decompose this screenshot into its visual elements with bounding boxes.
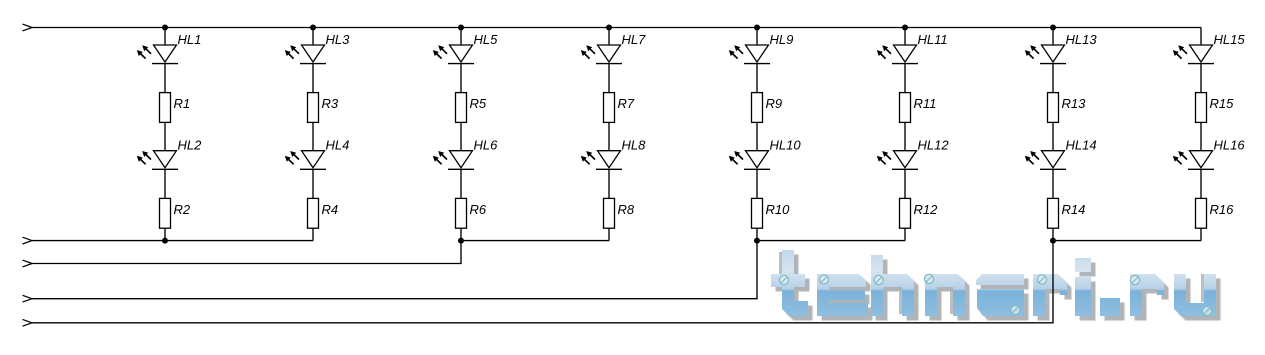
wire (904, 64, 906, 93)
wire (1052, 28, 1054, 46)
resistor R2 (160, 198, 191, 228)
wire (460, 28, 462, 46)
wire (460, 64, 462, 93)
svg-text:R3: R3 (322, 96, 339, 111)
svg-text:R8: R8 (618, 202, 635, 217)
terminal X4 (23, 295, 33, 302)
svg-text:HL4: HL4 (326, 138, 350, 153)
wire (164, 28, 166, 46)
svg-text:HL3: HL3 (326, 32, 351, 47)
resistor R6 (456, 198, 487, 228)
wire (904, 122, 906, 150)
LED HL7 (581, 32, 646, 64)
svg-text:R7: R7 (618, 96, 635, 111)
svg-text:HL11: HL11 (918, 32, 948, 47)
watermark tehnari.ru logo (771, 250, 1221, 321)
resistor R3 (308, 93, 339, 123)
wire (312, 169, 314, 198)
wire (608, 228, 610, 240)
wire (1200, 228, 1202, 240)
wire (608, 169, 610, 198)
svg-text:HL1: HL1 (178, 32, 202, 47)
resistor R10 (752, 198, 791, 228)
wire (312, 228, 314, 240)
resistor R16 (1196, 198, 1235, 228)
resistor R15 (1196, 93, 1235, 123)
wire (460, 228, 462, 240)
junction (754, 25, 760, 31)
LED HL3 (285, 32, 350, 64)
wire bus 4 (32, 241, 1201, 323)
terminal X1 (23, 24, 33, 31)
wire (904, 228, 906, 240)
svg-text:HL6: HL6 (474, 138, 499, 153)
resistor R14 (1048, 198, 1086, 228)
LED HL9 (729, 32, 794, 64)
svg-text:HL15: HL15 (1214, 32, 1246, 47)
LED HL2 (137, 138, 202, 170)
wire (608, 64, 610, 93)
wire (756, 228, 758, 240)
svg-text:R10: R10 (766, 202, 791, 217)
svg-text:HL9: HL9 (770, 32, 794, 47)
wire (756, 122, 758, 150)
LED HL15 (1173, 32, 1246, 64)
LED HL16 (1173, 138, 1246, 170)
wire bus 3 (32, 241, 905, 299)
junction (1050, 238, 1056, 244)
wire (1200, 122, 1202, 150)
LED HL5 (433, 32, 498, 64)
terminal X5 (23, 319, 33, 326)
wire bus 1 (32, 240, 313, 242)
svg-text:R11: R11 (914, 96, 937, 111)
resistor R11 (900, 93, 937, 123)
wire (756, 64, 758, 93)
svg-text:HL7: HL7 (622, 32, 647, 47)
svg-text:HL13: HL13 (1066, 32, 1098, 47)
wire (312, 122, 314, 150)
junction (606, 25, 612, 31)
LED HL4 (285, 138, 350, 170)
LED HL10 (729, 138, 802, 170)
wire (164, 228, 166, 240)
wire (904, 28, 906, 46)
resistor R7 (604, 93, 635, 123)
wire (164, 169, 166, 198)
svg-text:HL14: HL14 (1066, 138, 1097, 153)
wire (164, 64, 166, 93)
resistor R9 (752, 93, 783, 123)
wire (1052, 64, 1054, 93)
junction (458, 25, 464, 31)
wire (1200, 169, 1202, 198)
wire (312, 64, 314, 93)
resistor R12 (900, 198, 939, 228)
terminal X2 (23, 237, 33, 244)
wire (904, 169, 906, 198)
wire (1200, 28, 1202, 46)
junction (310, 25, 316, 31)
wire (756, 169, 758, 198)
LED HL11 (877, 32, 948, 64)
wire (312, 28, 314, 46)
resistor R13 (1048, 93, 1087, 123)
wire (1200, 64, 1202, 93)
svg-text:R13: R13 (1062, 96, 1087, 111)
junction (162, 238, 168, 244)
resistor R8 (604, 198, 635, 228)
svg-text:R9: R9 (766, 96, 783, 111)
svg-text:R2: R2 (174, 202, 191, 217)
LED HL6 (433, 138, 498, 170)
LED HL12 (877, 138, 950, 170)
wire (1052, 122, 1054, 150)
resistor R5 (456, 93, 487, 123)
wire (608, 28, 610, 46)
wire bus 2 (32, 241, 609, 264)
LED HL8 (581, 138, 646, 170)
wire (460, 169, 462, 198)
LED HL13 (1025, 32, 1098, 64)
junction (1050, 25, 1056, 31)
wire (460, 122, 462, 150)
svg-text:R15: R15 (1210, 96, 1235, 111)
junction (754, 238, 760, 244)
junction (162, 25, 168, 31)
svg-text:R1: R1 (174, 96, 191, 111)
svg-text:HL10: HL10 (770, 138, 802, 153)
resistor R4 (308, 198, 339, 228)
wire (608, 122, 610, 150)
svg-text:HL8: HL8 (622, 138, 647, 153)
svg-text:HL2: HL2 (178, 138, 203, 153)
LED HL1 (137, 32, 202, 64)
svg-text:HL12: HL12 (918, 138, 950, 153)
junction (458, 238, 464, 244)
resistor R1 (160, 93, 191, 123)
svg-text:R14: R14 (1062, 202, 1086, 217)
wire top bus (32, 27, 1201, 29)
svg-text:R4: R4 (322, 202, 339, 217)
wire (164, 122, 166, 150)
wire (1052, 228, 1054, 240)
wire (756, 28, 758, 46)
svg-text:R16: R16 (1210, 202, 1235, 217)
LED HL14 (1025, 138, 1097, 170)
svg-text:R6: R6 (470, 202, 487, 217)
svg-text:HL5: HL5 (474, 32, 499, 47)
svg-text:R12: R12 (914, 202, 939, 217)
svg-text:HL16: HL16 (1214, 138, 1246, 153)
terminal X3 (23, 260, 33, 267)
junction (902, 25, 908, 31)
wire (1052, 169, 1054, 198)
svg-text:R5: R5 (470, 96, 487, 111)
